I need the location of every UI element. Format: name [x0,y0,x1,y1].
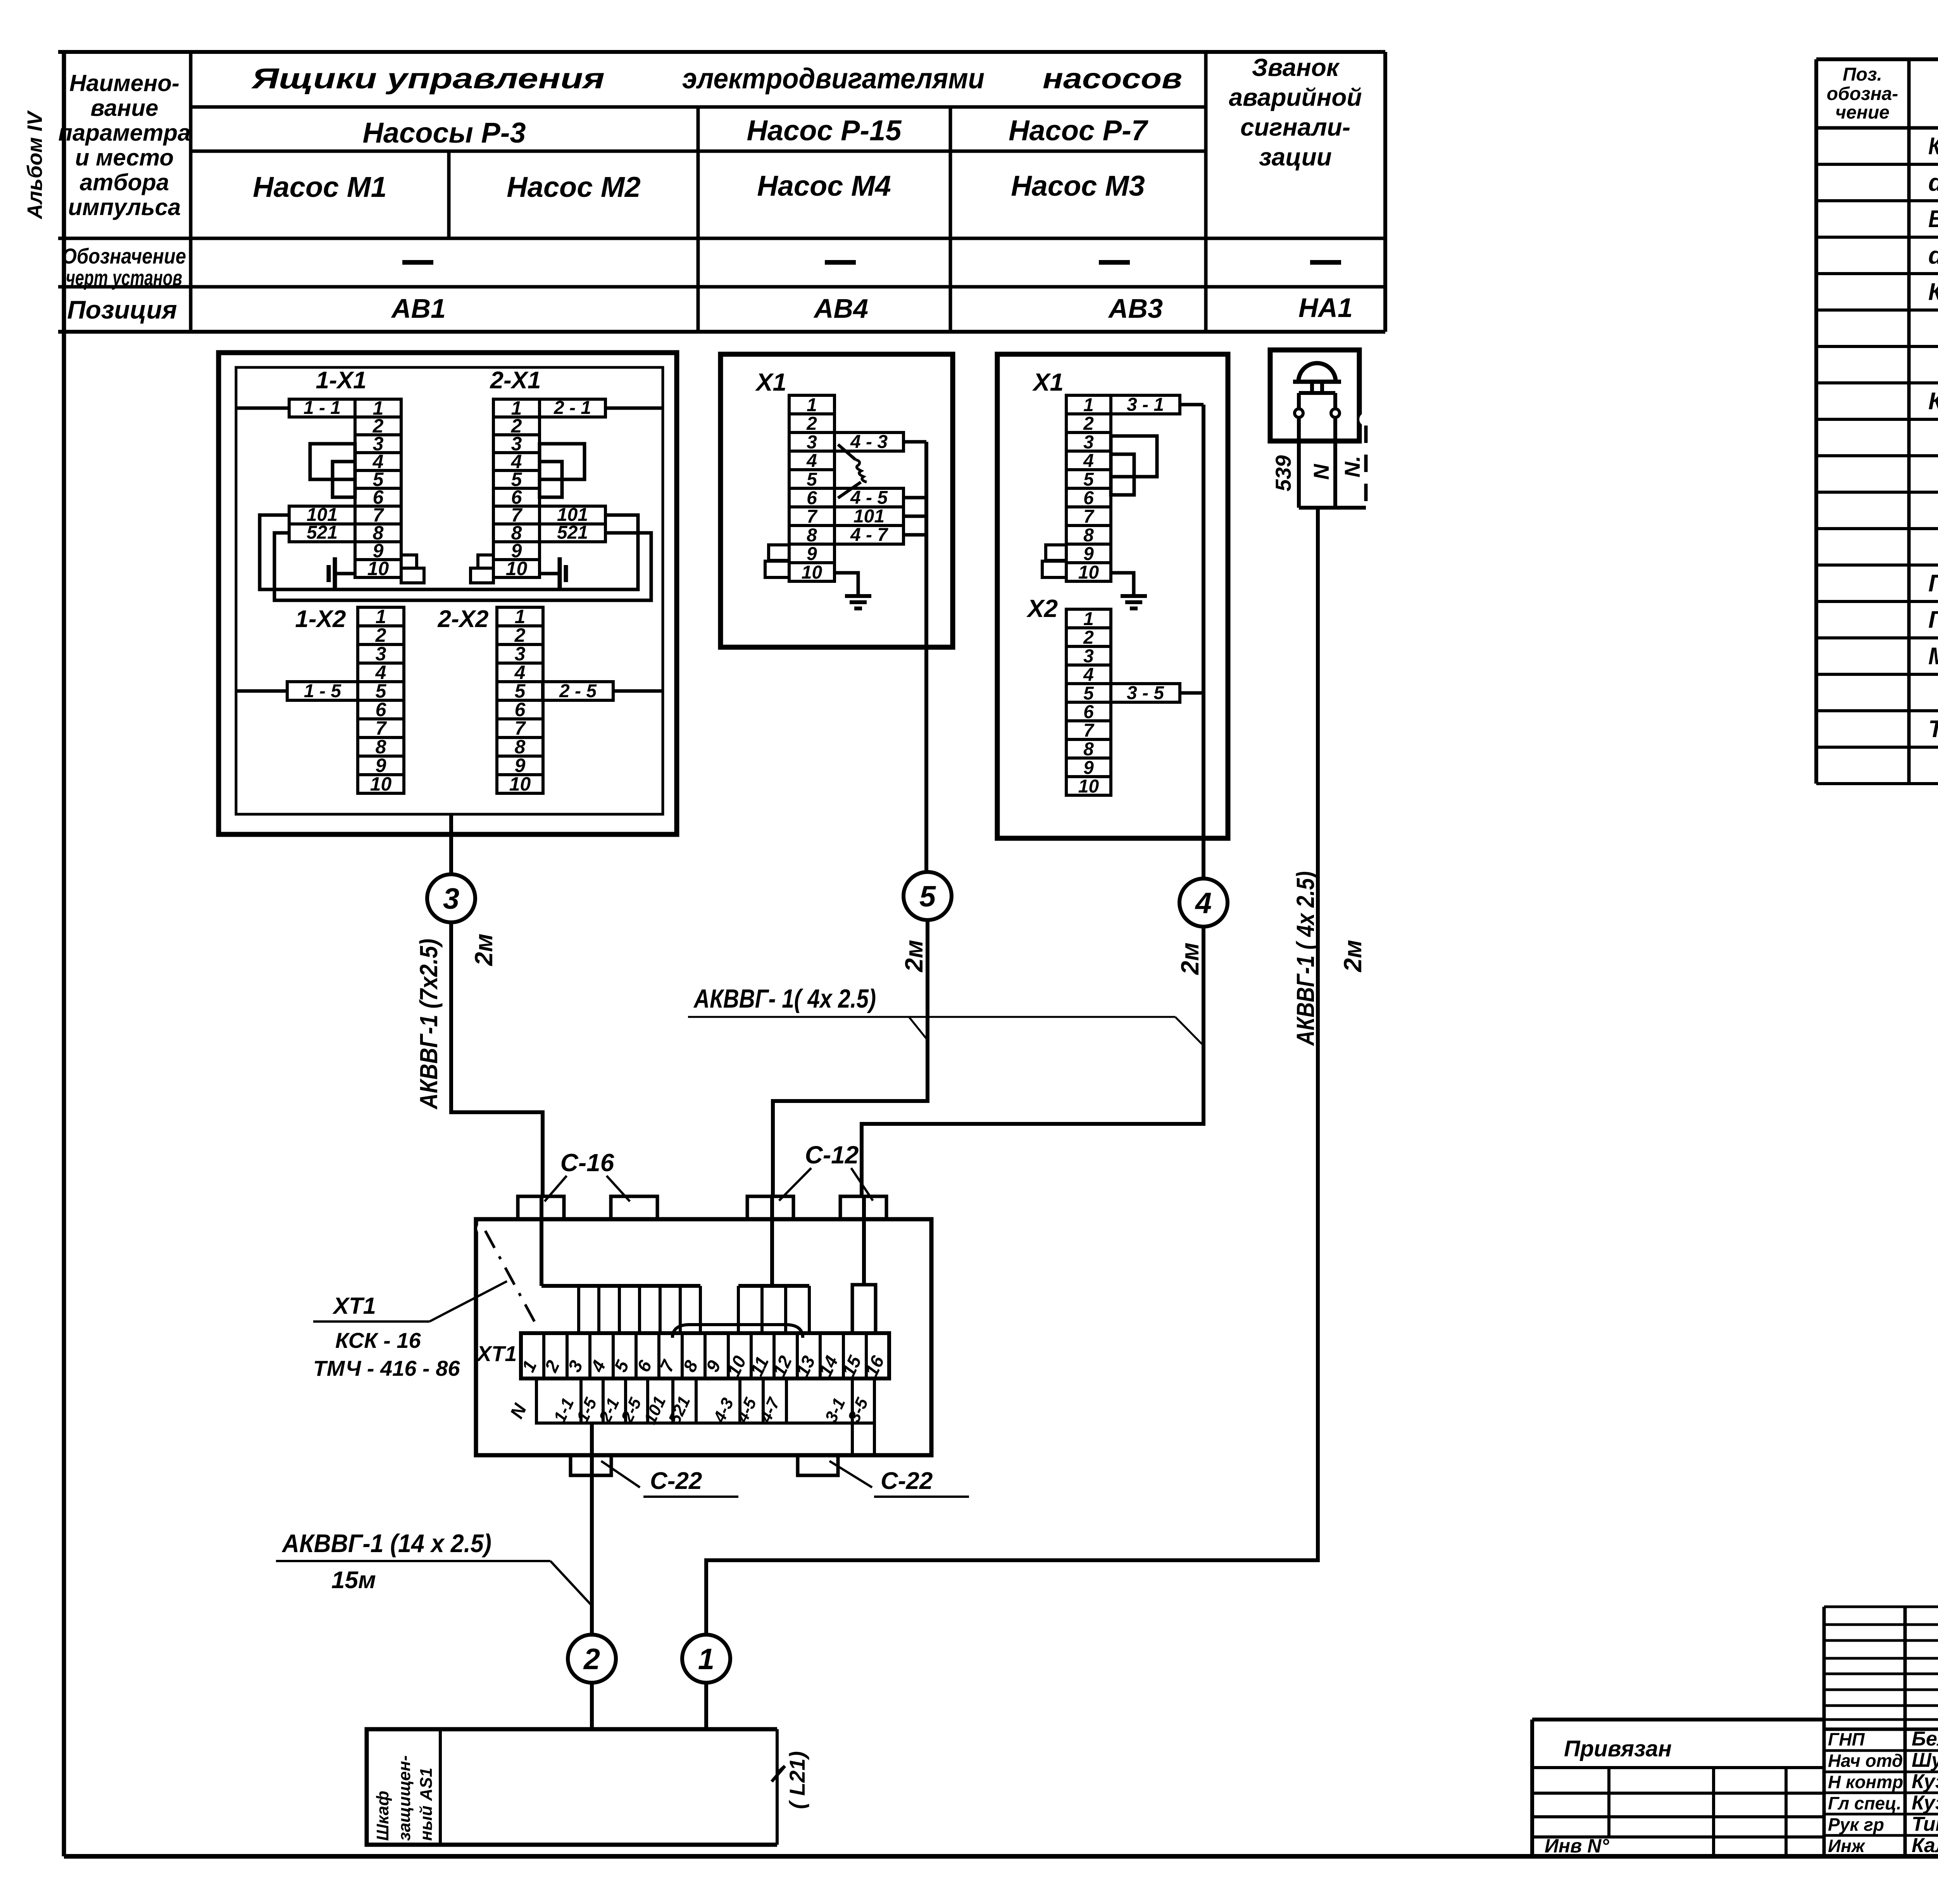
svg-text:Шкаф: Шкаф [373,1791,392,1841]
svg-text:3-5: 3-5 [844,1395,872,1425]
XT1 left bus rail [541,1284,700,1288]
wire tag 4-7 [835,525,903,545]
XT1 wire tag row [507,1378,874,1427]
svg-text:10: 10 [1078,562,1099,583]
svg-text:КСК - 16: КСК - 16 [335,1328,421,1353]
svg-text:10: 10 [370,773,392,795]
svg-text:1-1: 1-1 [550,1395,578,1425]
wire 2-1 to duct [605,407,663,410]
svg-text:Инв N°: Инв N° [1545,1835,1609,1857]
cable marker 3 [427,874,475,922]
svg-text:ТМЧ - 416 - 86: ТМЧ - 416 - 86 [313,1356,460,1380]
svg-text:dу = 15 мм. ГОСТ 21345-78*: dу = 15 мм. ГОСТ 21345-78* [1928,163,1938,199]
ground 1-X1 [329,557,355,590]
svg-text:( L21): ( L21) [785,1751,809,1809]
svg-text:ный АS1: ный АS1 [417,1768,436,1841]
svg-text:Белоус: Белоус [1912,1728,1938,1750]
svg-text:Коробка соединительная , ТУ3: Коробка соединительная , ТУ36. 1753-75 [1928,279,1938,305]
svg-text:аварийной: аварийной [1229,83,1362,111]
wire tag 3-1 [1111,395,1180,415]
wire tag 4-5 [835,488,903,508]
wire tag 521 left [289,522,355,543]
svg-text:1-Х1: 1-Х1 [316,367,367,394]
svg-text:Насосы Р-3: Насосы Р-3 [362,117,526,149]
svg-text:521: 521 [307,522,338,543]
XT1 tab below 3-5 [852,1423,874,1455]
svg-text:2-Х1: 2-Х1 [490,367,541,394]
svg-text:черт установ: черт установ [66,265,182,290]
svg-text:Кран контрольный трехходовой: Кран контрольный трехходовой, 11Б18 бк, [1928,133,1938,160]
svg-text:Кузнецов: Кузнецов [1912,1792,1938,1814]
bell wire labels [1271,455,1364,491]
XT1 incoming wires [541,1196,864,1286]
jumper 2-X1 terminals 3-5 [540,444,585,479]
svg-text:АВ3: АВ3 [1108,293,1163,324]
svg-text:АКВВГ-1 (14 х 2.5): АКВВГ-1 (14 х 2.5) [281,1529,491,1558]
wire 1-5 to duct [236,689,287,693]
cable 5 length label [900,940,928,972]
header table grid [58,52,1385,332]
jumper 2-X1 terminals 4-6 [540,462,562,497]
svg-text:1-5: 1-5 [573,1395,601,1425]
svg-text:2м: 2м [900,940,928,972]
control box M4 [721,354,953,647]
cable 4 length label [1176,943,1204,975]
ground 2-X1 [540,557,566,590]
svg-text:Шунский: Шунский [1912,1749,1938,1771]
wire tag 1-5 [287,681,358,701]
svg-text:4-3: 4-3 [710,1395,738,1426]
svg-text:4: 4 [1195,887,1212,920]
svg-text:С-16: С-16 [560,1149,614,1177]
svg-text:С-22: С-22 [881,1468,933,1494]
cable label AKVVG-1 14x2.5 [276,1529,591,1604]
wire 3-5 to cable [1180,691,1203,695]
svg-text:Ящики управления: Ящики управления [251,62,605,95]
terminal strip 2-X1 [490,367,541,579]
cable 2 to cabinet [590,1683,594,1729]
wire 2-5 to duct [613,689,663,693]
connector label C-22 left [601,1461,738,1497]
bell junction dot [1359,413,1372,426]
svg-text:Альбом IV: Альбом IV [23,110,47,220]
wire 1-1 to duct [236,407,289,410]
svg-text:10: 10 [367,558,389,579]
cable 5 run to XT1 [773,920,928,1196]
tab 1-X1 terminal 9 [401,555,417,568]
cable label AKVVG-1 7x2.5 [415,934,498,1110]
svg-text:сигнали-: сигнали- [1240,113,1350,141]
svg-text:Насос М4: Насос М4 [757,170,891,202]
XT1 middle tabs [738,1286,809,1333]
cabinet AB1 outer box [219,353,677,834]
svg-text:Привязан: Привязан [1564,1736,1672,1761]
wire tag 4-3 [835,432,903,452]
svg-text:электродвигателями: электродвигателями [682,62,985,95]
wires M4 tags to cable [903,442,926,647]
cable exit AB1 [449,814,453,874]
alarm bell box HA1 [1270,350,1359,441]
parts list header [1827,64,1938,123]
position row values [391,293,1353,324]
svg-text:Калмыков: Калмыков [1912,1834,1938,1857]
header table texts [58,53,1362,324]
wire tag 1-1 [289,398,355,418]
cabinet note L21 [785,1751,809,1809]
wire 521 loop [274,533,651,600]
svg-text:Провод ПВ1, сечением 1х 1.0: Провод ПВ1, сечением 1х 1.0 мм. кв [1928,570,1938,597]
connector label C-12 [779,1141,873,1201]
wire tag 101 M4 [835,506,903,527]
svg-text:10: 10 [509,773,531,795]
svg-text:ГНП: ГНП [1828,1729,1865,1749]
XT1 middle bus rail [738,1284,809,1288]
svg-text:Поз.: Поз. [1843,64,1882,85]
svg-text:3: 3 [443,882,459,915]
svg-text:ГОСТ 6323-79*: ГОСТ 6323-79* [1928,600,1938,633]
tab M4 terminal 9 [769,545,789,560]
svg-text:4 - 5: 4 - 5 [850,488,888,508]
svg-text:dу - 15мм, ГОСТ 9086-74*: dу - 15мм, ГОСТ 9086-74* [1928,236,1938,272]
cable 3 run to XT1 [451,922,543,1196]
svg-text:Насос М1: Насос М1 [253,171,386,203]
ground M3 [1111,573,1147,608]
jumper 1-X1 terminals 3-5 [310,444,355,479]
svg-text:N.: N. [1340,456,1364,477]
control box M3 [997,354,1228,838]
jumper 1-X1 terminals 4-6 [333,462,355,497]
cable marker 1 [682,1635,730,1683]
protected cabinet AS1 [367,1729,785,1845]
cable label AKVVG-1 4x2.5 horizontal [688,984,1202,1044]
svg-text:защищен-: защищен- [395,1755,414,1841]
svg-text:Титов: Титов [1912,1813,1938,1835]
title block: bound table [1532,1720,1824,1857]
svg-text:Рук гр: Рук гр [1828,1814,1884,1835]
cable 1 to cabinet [704,1683,708,1729]
wire tag 101 left [289,505,355,525]
terminal strip 2-X2 [438,606,543,795]
XT1 left tabs [579,1286,700,1333]
svg-text:ХТ1: ХТ1 [476,1341,517,1366]
svg-text:Позиция: Позиция [67,295,177,324]
svg-text:Инж: Инж [1828,1836,1866,1856]
terminal strip X1 of M4 [789,395,835,583]
svg-text:Кабель АКВВГ, ГОСТ 1508-78: Кабель АКВВГ, ГОСТ 1508-78*Е [1928,382,1938,415]
album label [23,110,47,220]
svg-text:Кузнецов: Кузнецов [1912,1770,1938,1793]
cable marker 4 [1179,879,1228,927]
svg-text:10: 10 [802,562,822,583]
terminal strip 1-X1 [316,367,401,579]
svg-text:4 - 3: 4 - 3 [850,432,888,452]
svg-text:10: 10 [1078,776,1099,797]
svg-text:Металлорукав Р3-Ц-Х-Ш-20,ТУ22-: Металлорукав Р3-Ц-Х-Ш-20,ТУ22-3988-77 [1928,643,1938,670]
cable 4 from box M3 [1202,838,1205,880]
svg-text:С-22: С-22 [650,1468,702,1494]
svg-text:3 - 1: 3 - 1 [1127,395,1164,415]
XT1 top connector bumps [518,1196,886,1219]
jumper M3 terminals 3-5 [1111,436,1157,477]
svg-text:насосов: насосов [1043,62,1182,95]
svg-text:2 - 5: 2 - 5 [559,681,597,701]
svg-text:4-7: 4-7 [756,1394,784,1426]
svg-text:Обозначение: Обозначение [62,244,186,268]
svg-text:НА1: НА1 [1298,293,1353,323]
svg-text:Насос М3: Насос М3 [1011,170,1145,202]
wire tag 3-5 [1111,683,1180,703]
svg-text:Х1: Х1 [1032,368,1064,396]
connector label C-16 [545,1149,630,1201]
svg-text:С-12: С-12 [805,1141,859,1169]
XT1 grounding dash-dot line [477,1222,535,1322]
cable marker 5 [903,872,952,920]
svg-text:1-Х2: 1-Х2 [295,606,346,632]
parts list rows [1928,133,1938,779]
svg-text:вание: вание [90,95,158,121]
tab M3 terminal 10 [1042,561,1066,577]
tab 2-X1 terminal 9 [478,555,493,568]
ground M4 [835,573,871,608]
XT1 terminal row [476,1333,889,1380]
svg-text:1 - 5: 1 - 5 [304,681,341,701]
title block: revision grid [1824,1607,1938,1856]
svg-text:чение: чение [1835,102,1890,123]
wire tag 2-5 [543,681,613,701]
svg-text:АВ1: АВ1 [391,293,446,324]
svg-text:5: 5 [919,880,936,913]
cable 4 run to XT1 [862,925,1203,1196]
XT1 jumper 8 to 13 [672,1325,803,1338]
junction box XT1 [476,1219,931,1455]
svg-text:3-1: 3-1 [821,1395,849,1425]
svg-text:2 - 1: 2 - 1 [553,398,591,418]
cable marker 2 [568,1635,616,1683]
svg-text:Наимено-: Наимено- [69,70,179,96]
svg-text:2-Х2: 2-Х2 [438,606,489,632]
svg-text:атбора: атбора [80,169,169,195]
wire 3-1 to cable [1180,405,1203,838]
svg-text:Н контр: Н контр [1828,1772,1903,1792]
bell symbol [1293,363,1341,417]
parts list table grid [1816,59,1938,784]
tab M3 terminal 9 [1046,545,1066,560]
svg-text:АКВВГ-1 (7х2.5): АКВВГ-1 (7х2.5) [415,939,443,1110]
thermal element squiggle M4 [838,445,867,498]
svg-text:1 - 1: 1 - 1 [303,398,341,418]
wire 101 loop [260,515,638,589]
svg-text:2-1: 2-1 [595,1395,623,1426]
XT1 bottom connector bumps [571,1455,838,1475]
svg-text:N: N [507,1400,531,1422]
XT1 external label [313,1281,507,1380]
svg-text:Насос Р-7: Насос Р-7 [1009,114,1149,146]
tab 1-X1 terminal 10 [401,568,424,583]
svg-text:Труба стальная ГОСТ 1070 4 -: Труба стальная ГОСТ 1070 4 - 76 ** [1928,710,1938,743]
tab 2-X1 terminal 10 [471,568,493,583]
svg-text:зации: зации [1259,143,1332,171]
svg-text:2-5: 2-5 [617,1395,645,1426]
svg-text:Х1: Х1 [755,368,786,396]
svg-text:4-5: 4-5 [733,1395,760,1426]
tab M4 terminal 10 [765,561,789,577]
svg-text:Званок: Званок [1252,53,1340,81]
bell cable down run [706,508,1318,1635]
svg-text:обозна-: обозна- [1827,84,1898,104]
jumper M3 terminals 4-6 [1111,454,1134,495]
wire tag 2-1 [540,398,605,418]
svg-text:импульса: импульса [68,194,181,220]
cable 5 from box M4 [924,647,928,872]
svg-text:101: 101 [853,506,885,527]
svg-text:2м: 2м [1339,940,1367,972]
svg-text:АКВВГ-1 ( 4х 2.5): АКВВГ-1 ( 4х 2.5) [1291,871,1319,1046]
terminal strip 1-X2 [295,606,404,795]
cable 2 wire from XT1 [590,1423,594,1635]
svg-text:1: 1 [698,1643,714,1676]
svg-text:Насос Р-15: Насос Р-15 [747,114,902,146]
svg-text:Х2: Х2 [1026,594,1058,622]
svg-text:4 - 7: 4 - 7 [850,525,888,545]
cabinet AB1 wiring duct [236,367,663,814]
svg-text:2м: 2м [1176,943,1204,975]
svg-text:3 - 5: 3 - 5 [1127,683,1164,703]
connector label C-22 right [829,1461,969,1497]
bell cable labels [1291,871,1367,1046]
svg-text:Насос М2: Насос М2 [507,171,640,203]
bell dashed neutral wire [1364,426,1368,508]
svg-text:и место: и место [75,145,174,171]
XT1 tab terminal 15 [852,1285,876,1333]
svg-text:параметра: параметра [58,120,190,146]
svg-text:10: 10 [506,558,528,579]
terminal strip X1 of M3 [1066,395,1111,583]
svg-text:2м: 2м [470,934,498,966]
bell wires [1299,417,1366,508]
svg-text:521: 521 [557,522,588,543]
terminal strip X2 of M3 [1026,594,1111,797]
svg-text:N: N [1309,464,1333,480]
svg-text:2: 2 [583,1643,600,1676]
svg-text:Гл спец.: Гл спец. [1828,1793,1902,1813]
wire tag 101 right [540,505,605,525]
svg-text:АКВВГ- 1( 4х 2.5): АКВВГ- 1( 4х 2.5) [693,984,876,1013]
svg-text:Вентиль запорный муфтовый 1: Вентиль запорный муфтовый 15Б3р, [1928,206,1938,233]
wire tag 521 right [540,522,605,543]
svg-text:539: 539 [1271,455,1295,491]
svg-text:ХТ1: ХТ1 [332,1293,376,1319]
title block: stamp rows [1824,1607,1938,1857]
designation dashes [402,260,1341,265]
svg-text:АВ4: АВ4 [813,293,868,324]
svg-text:Нач отд: Нач отд [1828,1751,1903,1771]
svg-text:15м: 15м [331,1567,376,1594]
